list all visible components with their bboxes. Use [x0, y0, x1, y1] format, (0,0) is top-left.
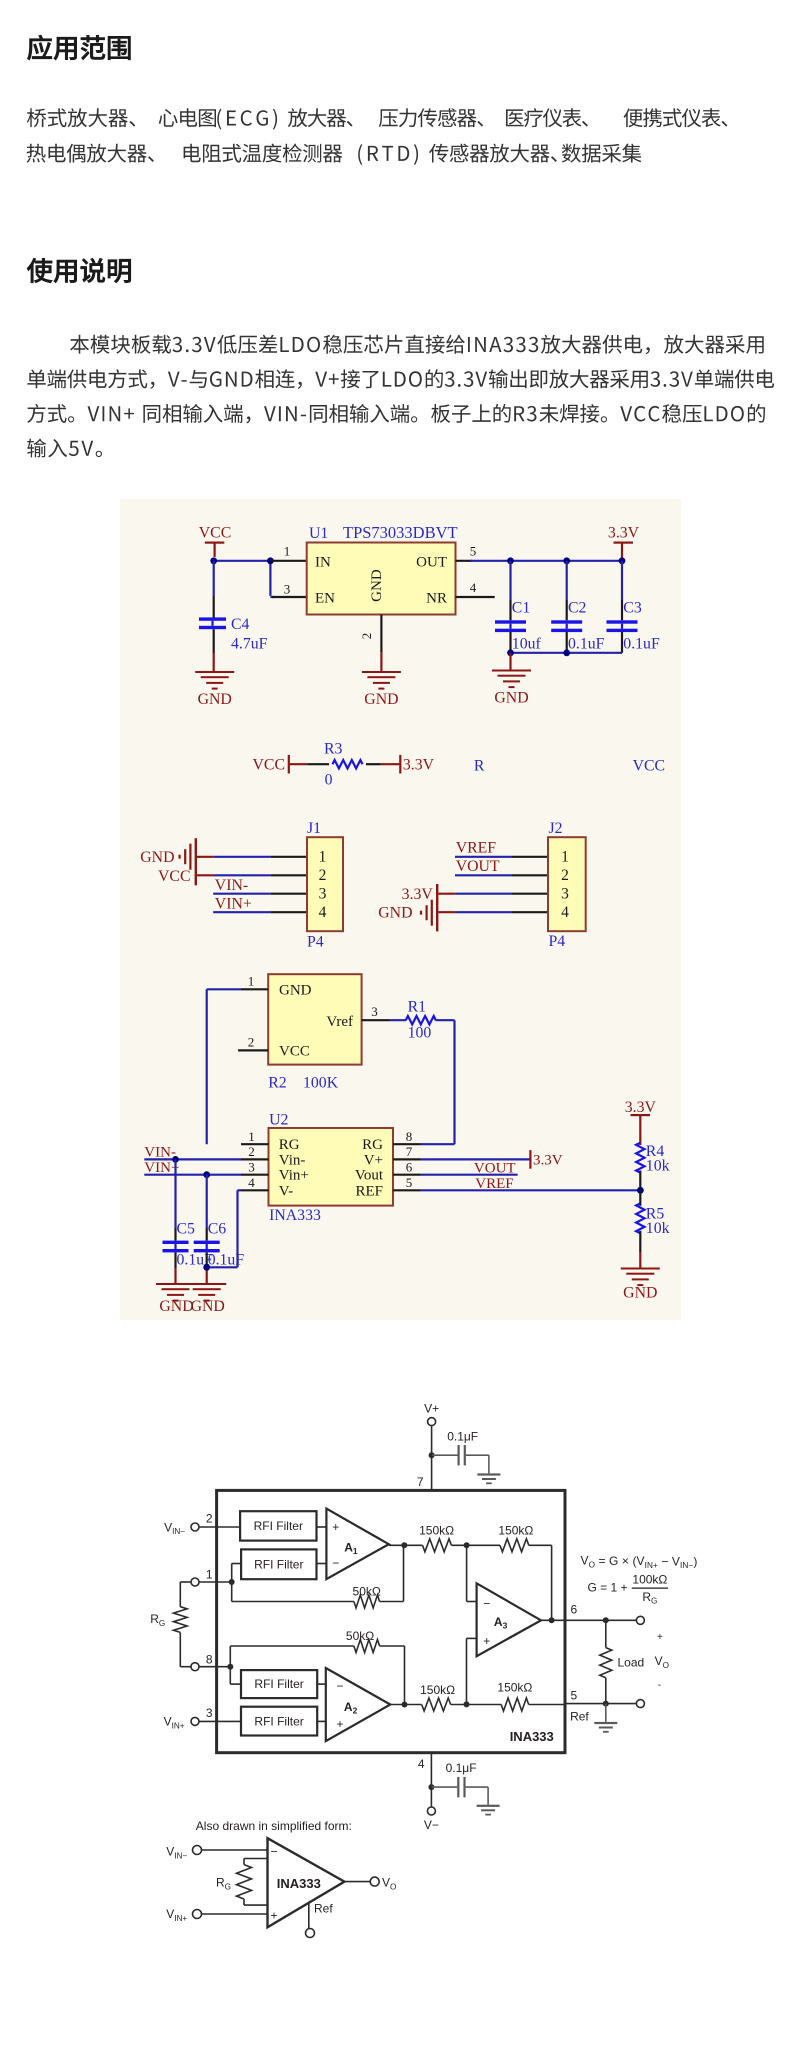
wire VIN+ to U2	[144, 1174, 241, 1176]
heading: 使用说明	[27, 258, 131, 283]
pin 1 R2 stub	[241, 974, 268, 990]
connector J2 body	[548, 837, 586, 931]
svg-text:G = 1 +: G = 1 +	[588, 1580, 628, 1594]
pin 4 U2 left stub	[241, 1175, 269, 1190]
ground under C4	[195, 671, 234, 708]
pin 1 U2 left stub	[241, 1129, 269, 1144]
heading: 应用范围	[27, 35, 130, 60]
wire U2 pin8	[421, 1143, 455, 1145]
wire output simplified	[344, 1881, 370, 1883]
ground under Ref	[594, 1704, 617, 1733]
svg-text:4: 4	[470, 580, 477, 595]
power flag 3.3V (divider)	[625, 1099, 657, 1145]
RFI Filter 3	[241, 1670, 317, 1698]
wire V- to C6	[207, 1190, 241, 1267]
svg-text:J2: J2	[549, 820, 563, 837]
svg-text:VCC: VCC	[279, 1044, 310, 1060]
pin 3 Vref stub	[362, 1004, 390, 1020]
node OUT-C1	[507, 557, 514, 564]
svg-text:6: 6	[571, 1603, 578, 1617]
svg-text:0.1uF: 0.1uF	[568, 636, 605, 653]
capacitor C4	[199, 616, 268, 653]
svg-text:50kΩ: 50kΩ	[346, 1629, 374, 1643]
svg-text:5: 5	[406, 1175, 413, 1190]
svg-text:EN: EN	[315, 591, 335, 607]
svg-text:RG: RG	[216, 1876, 231, 1892]
wire 150k top-2 to output node	[529, 1545, 552, 1620]
capacitor C2	[551, 561, 604, 653]
node VIN+ terminal	[164, 1715, 199, 1731]
ground under R5	[621, 1268, 660, 1302]
svg-text:VCC: VCC	[633, 758, 665, 775]
svg-text:GND: GND	[364, 691, 398, 708]
wire mid bottom	[451, 1704, 502, 1706]
node pin8 junction	[227, 1664, 233, 1670]
pin 6 U2 right stub	[393, 1159, 421, 1174]
svg-text:150kΩ: 150kΩ	[498, 1524, 533, 1538]
svg-text:0: 0	[325, 772, 333, 789]
svg-text:3: 3	[248, 1159, 255, 1174]
paragraph2 line 1	[70, 335, 764, 355]
svg-text:2: 2	[319, 867, 327, 884]
wire 150k bottom-2 to pin5	[529, 1704, 565, 1706]
wire J1 pin3	[213, 893, 307, 895]
node pin1 junction	[229, 1579, 235, 1585]
wire pin4 to V-	[430, 1753, 432, 1807]
svg-text:R1: R1	[408, 999, 426, 1016]
node A1 output	[401, 1542, 407, 1548]
node VIN+ simplified	[166, 1907, 201, 1923]
svg-text:+: +	[657, 1632, 663, 1643]
formula G	[588, 1572, 669, 1605]
svg-text:−: −	[332, 1556, 339, 1570]
paragraph line 1	[27, 108, 135, 127]
wire RFI1 to A1	[317, 1526, 327, 1528]
ground under C1	[492, 670, 531, 707]
paragraph2 line 3	[27, 404, 765, 424]
wire cap bottom rail	[511, 652, 623, 654]
node pin8 terminal	[191, 1652, 213, 1670]
svg-text:100K: 100K	[303, 1075, 339, 1092]
pin 2 GND stub of U1	[359, 615, 381, 672]
wire pin5 Ref	[565, 1703, 637, 1705]
svg-text:2: 2	[248, 1035, 255, 1050]
pin 2 U2 left stub	[241, 1144, 269, 1159]
node VIN- simplified	[166, 1845, 201, 1861]
op-amp U2 INA333 body	[269, 1128, 394, 1206]
wire OUT rail	[470, 560, 622, 562]
port VCC (R3 row)	[253, 755, 290, 774]
svg-text:2: 2	[561, 867, 569, 884]
node C2 gnd	[563, 649, 570, 656]
svg-text:10k: 10k	[646, 1220, 670, 1237]
pin 7 U2 right stub	[393, 1144, 421, 1159]
svg-text:0.1μF: 0.1μF	[446, 1761, 477, 1775]
node VIN+ C6	[203, 1171, 210, 1178]
op-amp A3	[477, 1583, 541, 1656]
svg-text:100: 100	[408, 1025, 432, 1042]
svg-text:4: 4	[561, 904, 569, 921]
wire pin1	[199, 1564, 241, 1602]
svg-text:GND: GND	[279, 982, 312, 998]
svg-text:VREF: VREF	[456, 840, 497, 857]
svg-text:0.1uF: 0.1uF	[623, 636, 660, 653]
svg-text:2: 2	[206, 1512, 213, 1526]
node VREF divider	[637, 1187, 644, 1194]
ground under C5	[156, 1283, 195, 1315]
node Ref terminal	[636, 1700, 644, 1708]
pin 3 EN stub	[272, 582, 307, 598]
wire A2 out	[390, 1704, 421, 1706]
capacitor C1	[495, 561, 541, 653]
node V- C6	[203, 1264, 210, 1271]
svg-text:−: −	[271, 1845, 278, 1859]
svg-text:+: +	[332, 1520, 339, 1534]
svg-text:REF: REF	[355, 1183, 383, 1199]
component R2 100K body	[268, 974, 361, 1064]
node Ref junction	[603, 1701, 609, 1707]
node OUT-C3	[619, 557, 626, 564]
node OUT-C2	[563, 557, 570, 564]
wire J1 pin2	[197, 874, 307, 876]
capacitor C3	[607, 561, 660, 653]
svg-text:3.3V: 3.3V	[533, 1153, 563, 1169]
RFI Filter 1	[240, 1511, 316, 1540]
svg-text:GND: GND	[369, 569, 385, 602]
svg-text:A2: A2	[344, 1700, 358, 1716]
svg-text:0.1uF: 0.1uF	[208, 1251, 245, 1268]
svg-text:RG: RG	[279, 1137, 300, 1153]
svg-text:C4: C4	[231, 616, 250, 633]
power flag VCC	[199, 525, 231, 558]
svg-text:TPS73033DBVT: TPS73033DBVT	[343, 523, 458, 542]
svg-text:3: 3	[206, 1706, 213, 1720]
svg-text:3: 3	[319, 886, 327, 903]
svg-text:1: 1	[248, 1129, 255, 1144]
svg-text:J1: J1	[307, 820, 321, 837]
svg-text:10k: 10k	[646, 1158, 670, 1175]
wire VIN- simplified	[202, 1849, 268, 1851]
pin 8 U2 right stub	[393, 1129, 421, 1144]
paragraph2 line 2	[27, 369, 774, 389]
node VO simplified	[370, 1876, 396, 1892]
RFI Filter 4	[241, 1707, 317, 1736]
svg-text:INA333: INA333	[277, 1876, 321, 1891]
resistor 150k bottom-2	[497, 1680, 532, 1711]
svg-text:Vin+: Vin+	[279, 1168, 309, 1184]
svg-text:INA333: INA333	[269, 1207, 321, 1224]
wire VCC to U1 IN	[214, 561, 274, 597]
wire rail to GND	[509, 653, 511, 670]
node pin1 terminal	[191, 1568, 213, 1586]
svg-text:P4: P4	[549, 933, 566, 950]
ground flag (J2)	[378, 884, 438, 931]
svg-text:3.3V: 3.3V	[625, 1099, 657, 1116]
resistor R5	[636, 1190, 669, 1267]
resistor RG simplified	[216, 1859, 268, 1906]
svg-text:3.3V: 3.3V	[402, 886, 434, 903]
svg-text:4: 4	[248, 1175, 255, 1190]
wire J2 pin4	[438, 911, 548, 913]
svg-text:RFI Filter: RFI Filter	[254, 1677, 303, 1691]
resistor Load	[600, 1620, 644, 1703]
resistor 50k A1 feedback	[232, 1545, 404, 1608]
svg-text:7: 7	[417, 1475, 424, 1489]
pin 5 OUT stub	[456, 544, 477, 561]
svg-text:−: −	[483, 1597, 490, 1611]
wire pin8	[199, 1646, 241, 1684]
svg-text:GND: GND	[198, 691, 232, 708]
svg-text:V-: V-	[279, 1183, 293, 1199]
node load junction	[603, 1617, 609, 1623]
svg-text:2: 2	[248, 1144, 255, 1159]
svg-text:GND: GND	[159, 1298, 193, 1315]
resistor 150k top-1	[419, 1524, 454, 1552]
svg-text:3.3V: 3.3V	[403, 757, 435, 774]
svg-text:RG: RG	[362, 1137, 383, 1153]
svg-text:-: -	[658, 1680, 661, 1691]
svg-text:IN: IN	[315, 554, 331, 570]
wire J2 pin1	[455, 856, 548, 858]
wire U2 pin7 to 3.3V	[421, 1158, 530, 1160]
svg-text:1: 1	[561, 849, 569, 866]
resistor 150k bottom-1	[420, 1683, 455, 1711]
svg-text:4: 4	[319, 904, 327, 921]
ground flag (J1)	[140, 838, 197, 885]
svg-text:C6: C6	[208, 1221, 227, 1238]
pin 4 NR stub	[456, 580, 495, 597]
node bottom mid junction	[464, 1701, 470, 1707]
svg-text:VIN+: VIN+	[166, 1907, 187, 1923]
svg-text:10uf: 10uf	[512, 636, 542, 653]
svg-text:1: 1	[319, 849, 327, 866]
svg-text:P4: P4	[307, 934, 324, 951]
svg-text:V−: V−	[424, 1818, 439, 1832]
svg-text:R2: R2	[268, 1075, 287, 1092]
capacitor 0.1uF top bypass	[432, 1445, 500, 1484]
wire R2 pin1 to U2 RG	[207, 989, 241, 1144]
svg-text:0.1μF: 0.1μF	[447, 1429, 478, 1443]
svg-text:150kΩ: 150kΩ	[420, 1683, 455, 1697]
wire A3 output to pin6	[541, 1619, 636, 1621]
svg-text:VIN−: VIN−	[164, 1520, 185, 1536]
svg-text:GND: GND	[378, 904, 412, 921]
svg-text:8: 8	[206, 1652, 213, 1666]
svg-text:RFI Filter: RFI Filter	[254, 1558, 303, 1572]
node bypass junction bottom	[428, 1784, 434, 1790]
node EN junction	[267, 557, 274, 564]
svg-text:150kΩ: 150kΩ	[419, 1524, 454, 1538]
wire J1 pin4	[213, 911, 307, 913]
wire C4 to GND	[213, 629, 215, 671]
resistor R1	[390, 999, 455, 1042]
capacitor 0.1uF bottom bypass	[432, 1777, 500, 1816]
op-amp U1 TPS73033DBVT body	[307, 543, 456, 615]
wire V+ to pin7	[431, 1426, 433, 1491]
svg-text:3.3V: 3.3V	[608, 525, 640, 542]
wire VIN+ simplified	[202, 1913, 268, 1915]
svg-text:3: 3	[561, 886, 569, 903]
wire A3 inverting input	[467, 1545, 477, 1601]
node top mid junction	[464, 1542, 470, 1548]
op-amp A1	[326, 1509, 388, 1580]
svg-text:R3: R3	[324, 741, 343, 758]
svg-text:4: 4	[418, 1757, 425, 1771]
svg-text:GND: GND	[191, 1298, 225, 1315]
svg-text:C2: C2	[568, 600, 587, 617]
svg-text:VOUT: VOUT	[456, 858, 500, 875]
svg-text:VIN-: VIN-	[215, 877, 248, 894]
ground under U1 pin2	[362, 671, 401, 708]
resistor RG external	[150, 1582, 191, 1667]
capacitor C5	[163, 1159, 214, 1283]
wire RFI4 to A2	[317, 1720, 326, 1722]
svg-text:Vref: Vref	[326, 1014, 353, 1030]
svg-text:1: 1	[206, 1568, 213, 1582]
wire A3 noninverting input	[467, 1638, 477, 1704]
pin 1 IN stub	[270, 544, 306, 561]
svg-text:C5: C5	[177, 1221, 196, 1238]
wire U2 pin6 VOUT	[421, 1174, 518, 1176]
svg-text:V+: V+	[424, 1402, 439, 1416]
wire J2 pin2	[455, 874, 548, 876]
svg-text:Ref: Ref	[314, 1902, 333, 1916]
resistor 50k A2 feedback	[230, 1629, 404, 1705]
svg-text:GND: GND	[140, 849, 174, 866]
svg-text:V+: V+	[364, 1152, 383, 1168]
svg-text:−: −	[337, 1679, 344, 1693]
svg-text:RG: RG	[642, 1590, 657, 1606]
svg-text:3: 3	[284, 582, 291, 597]
wire VIN+ to RFI4	[199, 1720, 241, 1722]
svg-text:VOUT: VOUT	[474, 1161, 516, 1177]
RFI Filter 2	[241, 1549, 316, 1579]
svg-text:5: 5	[571, 1689, 578, 1703]
svg-text:4.7uF: 4.7uF	[231, 636, 268, 653]
resistor 150k top-2	[498, 1524, 533, 1552]
paragraph2 line 4	[27, 439, 102, 458]
node C1 gnd	[507, 649, 514, 656]
svg-text:NR: NR	[426, 591, 447, 607]
capacitor C6	[194, 1175, 245, 1283]
svg-text:GND: GND	[494, 690, 528, 707]
svg-text:GND: GND	[623, 1285, 657, 1302]
svg-text:VCC: VCC	[158, 868, 190, 885]
svg-text:U2: U2	[269, 1112, 288, 1129]
svg-text:VCC: VCC	[199, 525, 231, 542]
resistor R3	[290, 741, 400, 789]
svg-text:VO: VO	[655, 1654, 669, 1670]
connector J1 body	[307, 837, 343, 931]
node VIN- C5	[172, 1156, 179, 1163]
svg-text:8: 8	[406, 1129, 413, 1144]
wire R1 to U2 pin8	[453, 1020, 455, 1144]
svg-text:Vin-: Vin-	[279, 1152, 306, 1168]
wire RFI2 to A1	[317, 1563, 327, 1565]
svg-text:2: 2	[359, 633, 374, 640]
svg-text:7: 7	[406, 1144, 413, 1159]
svg-text:U1: U1	[309, 525, 328, 542]
svg-text:150kΩ: 150kΩ	[497, 1680, 532, 1694]
power flag 3.3V	[608, 525, 640, 561]
svg-text:R: R	[474, 758, 485, 775]
wire RFI3 to A2	[317, 1683, 326, 1685]
svg-text:50kΩ: 50kΩ	[353, 1584, 381, 1598]
svg-text:Vout: Vout	[355, 1168, 384, 1184]
wire U2 pin5 VREF	[421, 1189, 641, 1191]
op-amp simplified INA333	[268, 1838, 345, 1927]
wire VIN- to U2	[144, 1158, 241, 1160]
node VCC junction	[210, 557, 217, 564]
label VO plus-minus	[655, 1632, 669, 1691]
node Ref simplified	[306, 1902, 334, 1938]
svg-text:OUT: OUT	[416, 554, 447, 570]
pin 2 R2 stub	[238, 1035, 268, 1051]
wire J2 pin3	[438, 893, 548, 895]
svg-text:VIN+: VIN+	[215, 895, 252, 912]
svg-text:RG: RG	[150, 1612, 165, 1628]
node A3 out	[549, 1617, 555, 1623]
svg-text:Load: Load	[618, 1656, 645, 1670]
svg-text:VO = G × (VIN+ − VIN−): VO = G × (VIN+ − VIN−)	[581, 1554, 698, 1570]
svg-text:5: 5	[470, 544, 477, 559]
port 3.3V (R3 row)	[399, 755, 434, 774]
svg-text:VIN+: VIN+	[164, 1715, 185, 1731]
op-amp A2	[326, 1668, 391, 1741]
svg-text:3: 3	[371, 1004, 378, 1019]
wire J1 pin1	[197, 856, 307, 858]
node VIN- terminal	[164, 1520, 199, 1536]
svg-text:Ref: Ref	[570, 1709, 589, 1723]
wire mid top	[451, 1544, 500, 1546]
svg-text:1: 1	[248, 974, 255, 989]
svg-text:RFI Filter: RFI Filter	[254, 1714, 303, 1728]
svg-text:VIN-: VIN-	[144, 1145, 176, 1161]
node V- terminal	[424, 1807, 439, 1832]
svg-text:1: 1	[284, 544, 291, 559]
svg-text:A3: A3	[494, 1615, 508, 1631]
svg-text:VREF: VREF	[475, 1176, 513, 1192]
svg-text:C1: C1	[512, 600, 530, 617]
svg-text:+: +	[483, 1634, 490, 1648]
svg-text:INA333: INA333	[510, 1729, 554, 1744]
node A2 output	[402, 1702, 408, 1708]
svg-text:RFI Filter: RFI Filter	[254, 1519, 303, 1533]
node VO+ terminal	[636, 1616, 644, 1624]
svg-text:C3: C3	[623, 600, 642, 617]
ground under C6	[187, 1283, 226, 1315]
svg-text:100kΩ: 100kΩ	[632, 1572, 667, 1586]
wire A1 out	[389, 1544, 423, 1546]
wire VIN- to RFI1	[199, 1526, 240, 1528]
pin 5 U2 right stub	[393, 1175, 421, 1190]
svg-text:+: +	[271, 1909, 278, 1923]
svg-text:VO: VO	[382, 1876, 396, 1892]
node V+ terminal	[424, 1402, 439, 1426]
svg-text:Also drawn in simplified form:: Also drawn in simplified form:	[196, 1819, 352, 1833]
wire C4 branch	[213, 561, 215, 618]
port 3.3V (U2 pin7)	[529, 1150, 562, 1169]
IC boundary box INA333	[217, 1490, 565, 1752]
svg-text:VCC: VCC	[253, 757, 285, 774]
svg-text:6: 6	[406, 1159, 413, 1174]
paragraph line 2	[27, 144, 154, 163]
pin 3 U2 left stub	[241, 1159, 269, 1174]
svg-text:VIN−: VIN−	[166, 1845, 187, 1861]
resistor R4	[636, 1143, 669, 1191]
wire Ref simplified	[308, 1903, 310, 1928]
svg-text:A1: A1	[344, 1541, 358, 1557]
